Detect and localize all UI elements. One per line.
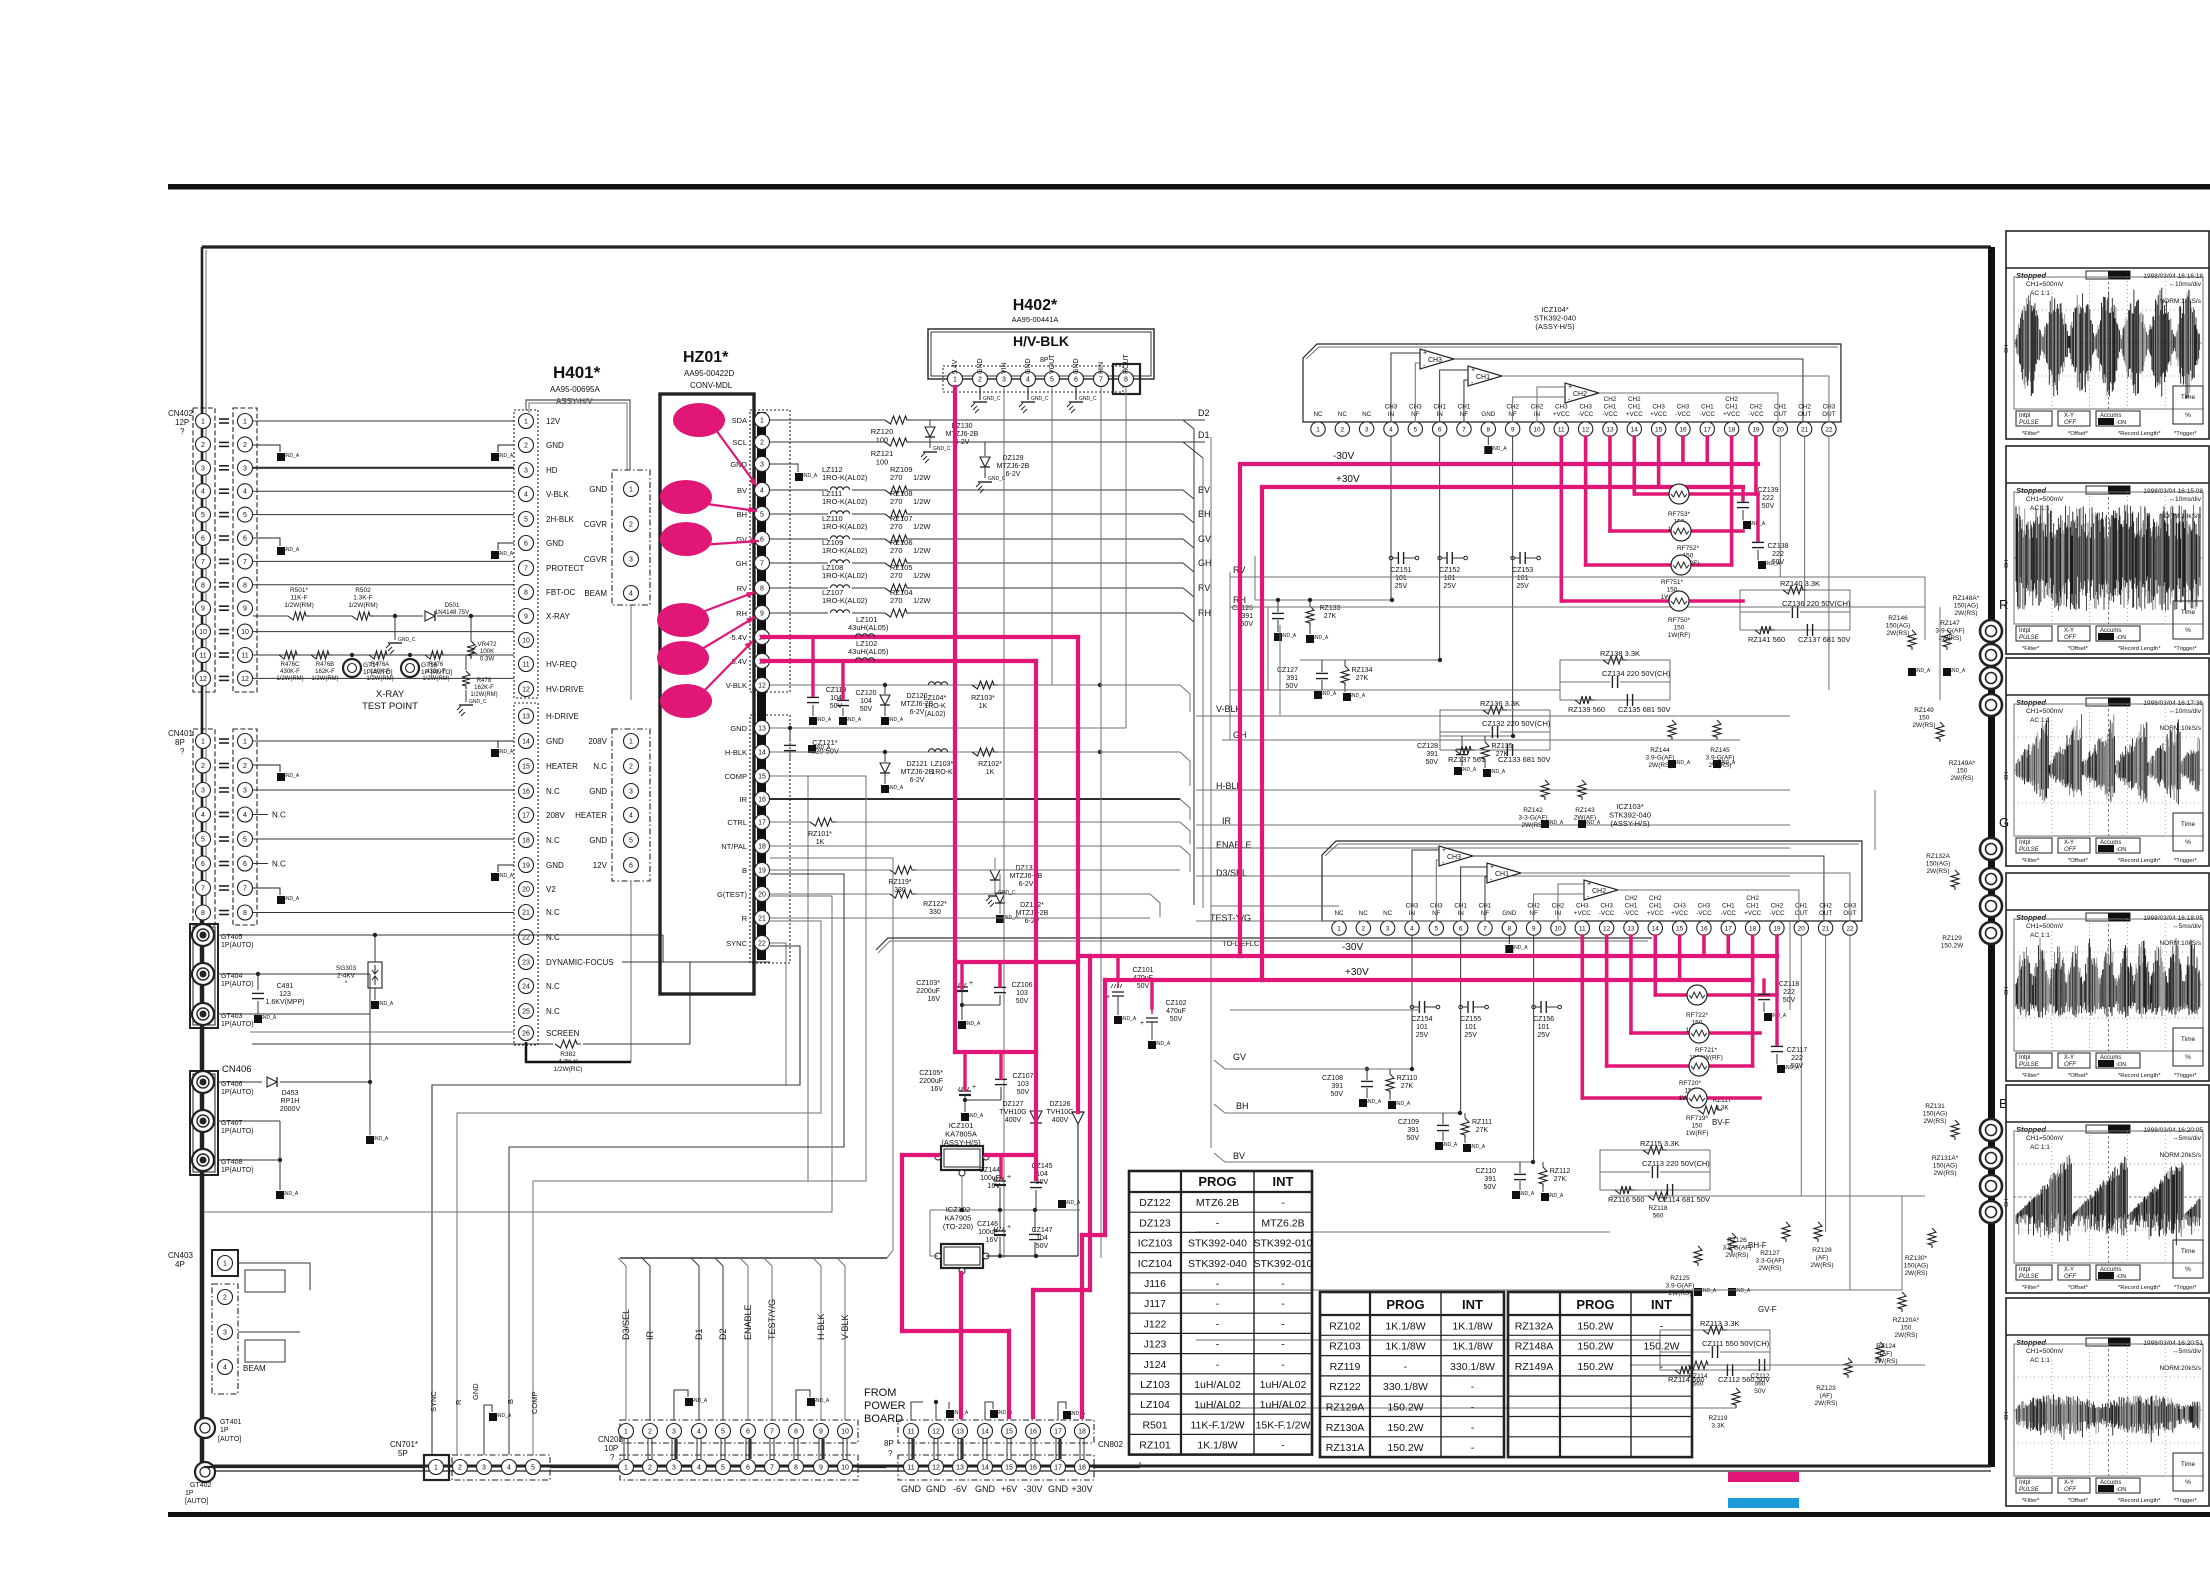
svg-text:RZ124: RZ124 (1876, 1343, 1896, 1350)
ICZ103 pin 18 (1745, 921, 1759, 935)
HZ01 pin 15 COMP (755, 769, 770, 784)
capacitor CZ107 (995, 1078, 1007, 1080)
wire link (696, 1439, 698, 1459)
resistor RZ143 (1578, 780, 1586, 800)
svg-text:11: 11 (522, 662, 529, 669)
svg-text:R501*: R501* (290, 587, 309, 594)
svg-text:22: 22 (758, 941, 766, 948)
svg-text:10: 10 (841, 1465, 849, 1472)
highlight arrow (700, 503, 757, 511)
6P pin 4 HEATER (624, 808, 639, 823)
svg-text:H/V-BLK: H/V-BLK (1013, 333, 1069, 349)
svg-text:SCL: SCL (732, 438, 747, 447)
wire link (793, 1439, 795, 1459)
svg-text:TVH10G: TVH10G (999, 1109, 1026, 1116)
H401 pin 7 PROTECT (519, 561, 534, 576)
H401 pin 21 N.C (519, 905, 534, 920)
svg-text:4: 4 (1410, 925, 1414, 932)
wire (1211, 905, 1339, 907)
svg-text:*Trigger*: *Trigger* (2174, 431, 2197, 437)
svg-text:RZ119: RZ119 (1708, 1415, 1727, 1422)
svg-text:43uH(AL05): 43uH(AL05) (848, 623, 889, 632)
svg-text:GND_A: GND_A (886, 785, 904, 791)
svg-text:RZ103*: RZ103* (971, 695, 995, 702)
CN203 pin 6 upper (741, 1424, 756, 1439)
wire (253, 560, 514, 562)
svg-text:27K: 27K (1401, 1083, 1414, 1090)
resistor RZ123 (1844, 1358, 1852, 1378)
capacitor CZ105 plates (959, 1090, 971, 1092)
wire (253, 814, 268, 816)
svg-text:GND_A: GND_A (844, 717, 862, 723)
svg-text:1/2W(RM): 1/2W(RM) (366, 676, 393, 682)
svg-text:104: 104 (1036, 1235, 1048, 1242)
svg-text:Stopped: Stopped (2016, 271, 2046, 280)
svg-text:+: + (1423, 350, 1427, 357)
svg-text:25V: 25V (1416, 1032, 1429, 1039)
svg-text:PROG: PROG (1576, 1297, 1614, 1312)
svg-text:100uF: 100uF (978, 1229, 998, 1236)
wire GND stub (484, 1405, 492, 1455)
svg-text:CN401: CN401 (168, 729, 193, 738)
svg-text:VR472: VR472 (478, 641, 497, 648)
svg-text:CH1: CH1 (1725, 404, 1738, 411)
ICZ103 pin 20 (1794, 921, 1808, 935)
capacitor CZ139 (1741, 487, 1744, 500)
svg-text:BEAM: BEAM (243, 1364, 266, 1373)
svg-text:100K: 100K (480, 648, 495, 655)
svg-text:GT401: GT401 (220, 1419, 242, 1426)
H401 pin 23 DYNAMIC-FOCUS (519, 955, 534, 970)
svg-text:B: B (742, 866, 747, 875)
svg-text:-: - (1216, 1359, 1220, 1371)
H401 pin 12 HV-DRIVE (519, 682, 534, 697)
CN802 pin 13 lower (953, 1460, 968, 1475)
svg-text:CZ101: CZ101 (1132, 967, 1153, 974)
highlight arrow (697, 617, 755, 652)
inductor LZ104 (928, 682, 947, 685)
svg-text:CN403: CN403 (168, 1251, 193, 1260)
CN401 pin 8 (196, 905, 211, 920)
terminal G ring (1980, 895, 2002, 917)
svg-text:CZ118: CZ118 (1779, 981, 1800, 988)
svg-text:8: 8 (760, 586, 764, 593)
svg-text:14: 14 (1631, 426, 1639, 433)
svg-text:CH2: CH2 (1573, 391, 1587, 398)
svg-text:270: 270 (890, 473, 903, 482)
wire link (647, 1439, 649, 1459)
wire (253, 467, 514, 469)
svg-text:Stopped: Stopped (2016, 698, 2046, 707)
svg-text:150.2W: 150.2W (1577, 1361, 1613, 1373)
svg-text:6: 6 (629, 863, 633, 870)
svg-text:12: 12 (1582, 426, 1590, 433)
svg-text:2: 2 (978, 377, 982, 384)
wire G row (770, 893, 890, 895)
op-amp ICZ103 CH2 (1584, 880, 1618, 900)
svg-text:3.3K: 3.3K (1711, 1423, 1725, 1430)
CN701 pin 1 (429, 1460, 444, 1475)
resistor R476B (311, 651, 333, 659)
terminal B ring (1980, 1119, 2002, 1141)
svg-text:150: 150 (1674, 625, 1685, 632)
svg-text:OUT: OUT (1798, 411, 1811, 418)
svg-text:-: - (1281, 1359, 1285, 1371)
svg-text:222: 222 (1772, 551, 1784, 558)
wire cz2 gnd (965, 1099, 1001, 1101)
svg-text:CH1: CH1 (1795, 903, 1808, 910)
H402 pin 7 HIN (1094, 372, 1109, 387)
svg-text:8: 8 (201, 910, 205, 917)
inductor LZ107 (770, 612, 828, 614)
svg-text:6: 6 (524, 541, 528, 548)
wire ICZ104 VCC pin 11 (1560, 437, 1564, 601)
wire (1202, 458, 1204, 908)
svg-text:24: 24 (522, 984, 530, 991)
wire (253, 912, 514, 914)
svg-text:7: 7 (201, 886, 205, 893)
svg-text:7: 7 (1462, 426, 1466, 433)
table row J122 (1129, 1312, 1312, 1314)
svg-text:RZ130*: RZ130* (1905, 1255, 1928, 1262)
svg-text:CH3: CH3 (1576, 903, 1589, 910)
resistor RZ149 (1936, 722, 1944, 742)
HZ01 pin 16 IR (755, 792, 770, 807)
svg-text:R502: R502 (355, 587, 371, 594)
svg-text:1: 1 (624, 1465, 628, 1472)
svg-text:PROG: PROG (1386, 1297, 1424, 1312)
wire (1239, 585, 1241, 607)
svg-text:270: 270 (890, 596, 903, 605)
svg-text:Stopped: Stopped (2016, 913, 2046, 922)
svg-text:*Filter*: *Filter* (2022, 1285, 2040, 1291)
svg-text:[AUTO]: [AUTO] (185, 1498, 208, 1505)
svg-text:7: 7 (760, 561, 764, 568)
svg-text:123: 123 (279, 991, 291, 998)
svg-text:X-Y: X-Y (2064, 840, 2074, 846)
wire CN203 to CN802 (858, 1466, 886, 1468)
CN203 pin 3 upper (667, 1424, 682, 1439)
svg-text:GND_A: GND_A (1348, 693, 1366, 699)
inductor LZ101 on pink (855, 634, 874, 637)
svg-text:HEATER: HEATER (546, 762, 578, 771)
svg-text:RZ149A: RZ149A (1515, 1361, 1554, 1373)
svg-text:430K-F: 430K-F (280, 669, 300, 675)
wire R382 row (252, 1043, 553, 1045)
svg-text:2W(RS): 2W(RS) (1814, 1400, 1837, 1407)
HZ01 pin 20 G(TEST) (755, 887, 770, 902)
svg-text:D3/SEL: D3/SEL (621, 1309, 631, 1340)
highlight ellipse 2 (660, 480, 712, 514)
svg-text:4: 4 (760, 488, 764, 495)
svg-text:CH1: CH1 (1625, 903, 1638, 910)
wire CN401 pin2 gnd hook (253, 765, 280, 772)
svg-text:OFF: OFF (2064, 635, 2076, 641)
terminal GT402 (195, 1462, 215, 1482)
wire CN402 pin6 gnd hook (253, 538, 280, 546)
svg-text:-: - (1216, 1298, 1220, 1310)
resistor RZ137 561 (1455, 746, 1475, 754)
svg-text:OFF: OFF (2064, 1062, 2076, 1068)
table row blank (1508, 1375, 1692, 1377)
CN701 pin 3 (477, 1460, 492, 1475)
wire cap stub CZ119 (811, 637, 814, 695)
wire bundle horizontal (620, 1257, 887, 1259)
resistor R476 (425, 651, 447, 659)
node GV mid (1214, 1060, 1390, 1069)
wire H401 top hook (526, 400, 630, 470)
svg-text:GND_C: GND_C (1079, 396, 1097, 402)
svg-text:GND_A: GND_A (812, 1398, 830, 1404)
wire ICZ103 VCC pin 11 (1581, 936, 1585, 1098)
resistor RZ106 (885, 559, 911, 567)
svg-text:CZ126: CZ126 (1232, 605, 1253, 612)
scope 3 buttons (2016, 838, 2052, 853)
table row ICZ103 (1129, 1231, 1312, 1233)
svg-text:5: 5 (721, 1429, 725, 1436)
svg-text:?: ? (180, 747, 185, 756)
wire (1196, 1339, 1660, 1341)
wire ic pin down (1439, 436, 1441, 660)
svg-text:1uH/AL02: 1uH/AL02 (1194, 1399, 1241, 1411)
wire ICZ104 VCC pin 14 (1632, 437, 1636, 494)
table row LZ103 (1129, 1373, 1312, 1375)
highlight arrow (700, 641, 753, 695)
svg-text:7: 7 (1483, 925, 1487, 932)
H402 pin 1 5.4V (948, 372, 963, 387)
svg-text:CH2: CH2 (1604, 396, 1617, 403)
ICZ104 pin 9 (1505, 422, 1519, 436)
wire (1901, 1196, 1903, 1290)
svg-text:V-BLK: V-BLK (840, 1314, 850, 1340)
svg-text:8: 8 (243, 582, 247, 589)
svg-text:*Record Length*: *Record Length* (2118, 431, 2161, 437)
H402 pin 2 GND (973, 372, 988, 387)
svg-text:*Record Length*: *Record Length* (2118, 1285, 2161, 1291)
svg-text:GND_A: GND_A (1364, 1099, 1382, 1105)
svg-text:R: R (1999, 597, 2008, 612)
capacitor CZ136 220 50V(CH) (1791, 606, 1793, 618)
svg-text:RZ125: RZ125 (1670, 1275, 1690, 1282)
svg-text:RZ147: RZ147 (1940, 620, 1960, 627)
svg-text:CZ103*: CZ103* (916, 980, 940, 987)
ICZ104 pin 14 (1627, 422, 1641, 436)
svg-text:LZ103: LZ103 (1140, 1379, 1170, 1391)
svg-text:CZ151: CZ151 (1390, 567, 1411, 574)
resistor RZ107 (885, 535, 911, 543)
svg-text:8: 8 (794, 1429, 798, 1436)
wire ic pin down (1460, 935, 1462, 1113)
scope 5 screen (2014, 1131, 2203, 1263)
svg-text:GND_A: GND_A (1459, 767, 1477, 773)
svg-text:101: 101 (1465, 1024, 1477, 1031)
H401 pin 11 HV-REQ (519, 657, 534, 672)
svg-text:+: + (1471, 367, 1475, 374)
ICZ103 pin 1 (1332, 921, 1346, 935)
svg-text:RZ111: RZ111 (1472, 1119, 1492, 1126)
H401 pin 15 HEATER (519, 759, 534, 774)
svg-text:GND_A: GND_A (259, 1015, 277, 1021)
H401 pin 10 (519, 633, 534, 648)
svg-text:*Record Length*: *Record Length* (2118, 646, 2161, 652)
svg-text:1RO-K(AL02): 1RO-K(AL02) (822, 596, 868, 605)
svg-text:1: 1 (1316, 426, 1320, 433)
wire (1210, 437, 1212, 906)
svg-text:3.9-G(AF): 3.9-G(AF) (1666, 1283, 1695, 1290)
svg-text:LZ103*: LZ103* (931, 761, 954, 768)
svg-text:↔10ms/div: ↔10ms/div (2168, 708, 2201, 715)
svg-text:CH: CH (2004, 345, 2010, 353)
capacitor CZ134 220 50V(CH) (1611, 676, 1613, 688)
wire (253, 838, 514, 840)
oscilloscope panel 4 frame (2006, 873, 2209, 1081)
resistor RZ141 560 (1755, 626, 1775, 634)
svg-text:16V: 16V (986, 1237, 999, 1244)
wire +30V drop to CN802 (1103, 980, 1107, 1235)
zener DZ132 (995, 893, 1005, 903)
svg-text:1: 1 (201, 419, 205, 426)
svg-text:1K.1/8W: 1K.1/8W (1452, 1320, 1492, 1332)
svg-text:3: 3 (201, 465, 205, 472)
wire D-bus vertical (1210, 906, 1212, 1148)
svg-text:2: 2 (760, 440, 764, 447)
table row blank (1508, 1416, 1692, 1418)
svg-text:CH: CH (2004, 1199, 2010, 1207)
svg-text:1P: 1P (185, 1490, 194, 1497)
svg-text:150: 150 (1957, 768, 1968, 775)
wire (1924, 577, 1926, 640)
capacitor CZ146 (999, 1210, 1001, 1228)
svg-text:391: 391 (1484, 1176, 1496, 1183)
zener DZ121 (880, 763, 890, 773)
wire NT/PAL to bundle (770, 858, 893, 1258)
svg-text:GND_A: GND_A (963, 1021, 981, 1027)
node ENABLE right (1180, 822, 1190, 844)
svg-text:1/2W(RC): 1/2W(RC) (554, 1066, 583, 1073)
resistor R476C (279, 651, 301, 659)
wire (253, 420, 514, 422)
svg-text:CZ102: CZ102 (1165, 1000, 1186, 1007)
svg-text:R478: R478 (477, 678, 492, 684)
svg-text:270: 270 (890, 571, 903, 580)
wire G(TEST) path (204, 896, 832, 1212)
svg-text:5: 5 (1050, 377, 1054, 384)
svg-text:R476C: R476C (281, 662, 300, 668)
svg-text:RF751*: RF751* (1661, 579, 1684, 586)
svg-text:15: 15 (1676, 925, 1684, 932)
wire (1874, 790, 1876, 850)
ICZ103 pin 21 (1818, 921, 1832, 935)
potentiometer VR472 (467, 641, 475, 659)
table row J116 (1129, 1272, 1312, 1274)
svg-text:50V: 50V (1170, 1016, 1183, 1023)
svg-text:*Record Length*: *Record Length* (2118, 1073, 2161, 1079)
svg-text:9: 9 (243, 606, 247, 613)
scope 6 time box (2173, 1453, 2203, 1491)
H401 pin 20 V2 (519, 882, 534, 897)
svg-text:AC 1:1: AC 1:1 (2030, 717, 2050, 724)
svg-text:BV: BV (1198, 485, 1210, 495)
svg-text:1K.1/8W: 1K.1/8W (1385, 1320, 1425, 1332)
wire ICZ104 out drops (1779, 437, 1781, 577)
terminal B ring (1980, 1175, 2002, 1197)
svg-text:5: 5 (201, 837, 205, 844)
HZ01 pin 9 RH (755, 606, 770, 621)
capacitor CZ153 (1519, 552, 1521, 564)
svg-text:+: + (1568, 384, 1572, 391)
frame bottom double line (202, 1465, 1991, 1468)
svg-text:CH1=500mV: CH1=500mV (2026, 708, 2064, 715)
svg-text:150.2W: 150.2W (1387, 1402, 1423, 1414)
CGVR pin 3 CGVR (624, 552, 639, 567)
wire ICZ104 VCC pin 17 (1705, 437, 1709, 464)
svg-text:(ASSY-H/S): (ASSY-H/S) (1535, 322, 1575, 331)
oscilloscope panel 6 frame (2006, 1298, 2209, 1506)
svg-text:*Record Length*: *Record Length* (2118, 1498, 2161, 1504)
capacitor CZ154 (1418, 1001, 1420, 1013)
svg-text:CH1=500mV: CH1=500mV (2026, 1348, 2064, 1355)
svg-text:2: 2 (1341, 426, 1345, 433)
CN802 pin 17 lower (1051, 1460, 1066, 1475)
svg-text:*Filter*: *Filter* (2022, 431, 2040, 437)
svg-text:150.2W: 150.2W (1643, 1341, 1679, 1353)
svg-text:11: 11 (1579, 925, 1586, 932)
resistor RZ125 (1694, 1246, 1702, 1266)
svg-text:150.2W: 150.2W (1387, 1442, 1423, 1454)
svg-text:SCREEN: SCREEN (546, 1029, 580, 1038)
wire (1222, 739, 1740, 741)
svg-text:MTZ6.2B: MTZ6.2B (1196, 1197, 1239, 1209)
H402 pin 8 HOUT (1119, 372, 1134, 387)
ICZ104 pin 16 (1676, 422, 1690, 436)
svg-text:6: 6 (746, 1429, 750, 1436)
svg-text:1: 1 (1337, 925, 1341, 932)
svg-text:BV-F: BV-F (1712, 1118, 1730, 1127)
svg-text:H402*: H402* (1013, 297, 1058, 314)
wire link (745, 1439, 747, 1459)
svg-text:1N4148 75V: 1N4148 75V (435, 609, 470, 616)
svg-text:RV: RV (1198, 583, 1210, 593)
svg-text:-: - (1660, 1361, 1664, 1373)
scope 5 waveform (2015, 1215, 2017, 1224)
svg-text:11: 11 (241, 653, 248, 660)
svg-text:11: 11 (1558, 426, 1565, 433)
svg-text:7: 7 (243, 886, 247, 893)
svg-text:RZ102*: RZ102* (978, 761, 1002, 768)
scope 1 waveform (2015, 339, 2017, 348)
svg-text:*Trigger*: *Trigger* (2174, 1073, 2197, 1079)
CN701 pin 5 (526, 1460, 541, 1475)
svg-text:150(AG): 150(AG) (1926, 861, 1951, 868)
H401 pin 16 N.C (519, 784, 534, 799)
svg-text:?: ? (610, 1453, 615, 1462)
svg-text:-VCC: -VCC (1623, 910, 1639, 917)
wire (1630, 1364, 1925, 1366)
svg-text:6: 6 (1438, 426, 1442, 433)
scope 4 waveform (2015, 985, 2017, 1007)
svg-text:RZ112: RZ112 (1550, 1168, 1571, 1175)
svg-text:*Offset*: *Offset* (2068, 646, 2089, 652)
svg-text:1uH/AL02: 1uH/AL02 (1194, 1379, 1241, 1391)
CN402 pin 11 (196, 648, 211, 663)
svg-text:DZ122: DZ122 (1139, 1197, 1171, 1209)
wire reg mid (961, 1176, 963, 1210)
svg-text:-5.4V: -5.4V (729, 633, 747, 642)
svg-text:21: 21 (1801, 426, 1809, 433)
svg-text:RZ141 560: RZ141 560 (1748, 635, 1785, 644)
svg-text:RZ128: RZ128 (1812, 1247, 1832, 1254)
svg-text:*Trigger*: *Trigger* (2174, 858, 2197, 864)
